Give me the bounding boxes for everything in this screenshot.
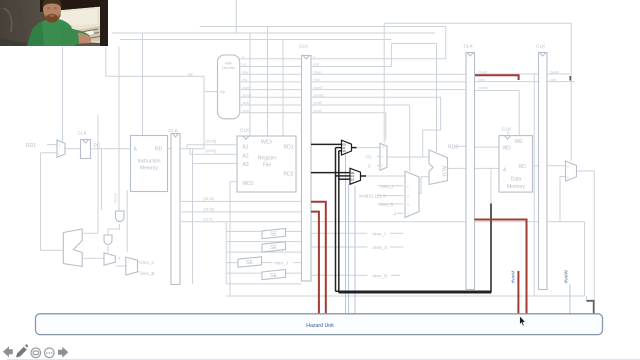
forwarding mux A (black)	[342, 140, 361, 184]
wire instr3112 in	[378, 195, 404, 197]
svg-text:[24:20]: [24:20]	[204, 208, 214, 212]
svg-text:RD: RD	[155, 147, 163, 153]
wire rfwe M line	[475, 73, 539, 75]
alu	[429, 150, 448, 185]
wire top drop	[235, 0, 237, 33]
svg-text:SE: SE	[270, 245, 277, 251]
mux immJ/immB	[126, 257, 138, 275]
wire red aluresM to hazard	[475, 220, 527, 315]
svg-text:A3: A3	[243, 162, 249, 168]
svg-text:RD2: RD2	[283, 172, 293, 178]
icon circle dots	[45, 348, 55, 358]
wire ctrl ms	[240, 81, 302, 83]
wire jal input to decoder	[62, 47, 64, 144]
wire resultw drop right	[584, 222, 586, 296]
wire ctrl srcA	[240, 112, 302, 114]
wire resultw return	[226, 295, 585, 297]
wire muxB out gray	[366, 175, 405, 177]
svg-text:CLK: CLK	[536, 44, 546, 50]
eyes shade	[47, 7, 50, 9]
notch reg3	[467, 53, 473, 57]
svg-text:1: 1	[567, 165, 569, 169]
wire ctrl mwe	[240, 89, 302, 91]
dark gray hazard feed corner	[570, 76, 593, 314]
wire instr vertical	[203, 76, 205, 148]
blinds	[73, 29, 100, 40]
bottom hairline	[7, 358, 640, 360]
wire pcmux sel drop	[383, 23, 385, 143]
wire pc+4 drop b	[101, 149, 103, 210]
wire pcmux in1	[377, 155, 380, 157]
main decoder U-ctrl	[218, 55, 240, 119]
svg-text:imm_J: imm_J	[381, 184, 394, 189]
svg-text:0: 0	[58, 154, 60, 158]
wire se row7	[226, 262, 301, 264]
adder branch target	[63, 229, 82, 267]
wire RD1 label to mux	[47, 144, 57, 146]
wire rail1 drop right	[570, 23, 572, 161]
hazard unit box	[36, 314, 603, 335]
wire gate link	[108, 224, 120, 235]
wire muxB out black	[361, 175, 367, 177]
svg-text:1: 1	[58, 144, 60, 148]
svg-text:Memory: Memory	[507, 184, 526, 190]
wire rs line long	[311, 221, 585, 223]
svg-text:Decoder: Decoder	[222, 66, 236, 70]
notch reg2	[303, 56, 309, 60]
wire dm rd out	[533, 165, 566, 167]
wire wmux in0 drop	[559, 177, 561, 222]
wire we3 drop	[249, 33, 251, 136]
wire wmux in0	[560, 176, 566, 178]
mux PC-jalr	[57, 140, 65, 158]
wire instr field line3	[181, 221, 302, 223]
wire red rs1E	[311, 202, 326, 314]
svg-text:Register: Register	[258, 156, 277, 162]
person hand	[78, 33, 92, 44]
wire rail3 drop	[142, 33, 144, 136]
svg-text:[31:7]: [31:7]	[204, 217, 213, 221]
svg-text:ms: ms	[243, 78, 248, 82]
icon circle face	[31, 348, 41, 358]
notch reg1	[173, 134, 179, 138]
wire imm labels in	[378, 185, 404, 187]
wire alu ctrl drop	[436, 44, 438, 153]
wire wd to reg3	[455, 145, 466, 147]
svg-text:srcB: srcB	[243, 101, 249, 105]
icon arrow right	[58, 347, 68, 358]
svg-text:[19:15]: [19:15]	[206, 140, 216, 144]
wire dm clk stub	[507, 132, 509, 136]
svg-text:imm_S: imm_S	[373, 245, 388, 251]
svg-text:instr[31:12], 0: instr[31:12], 0	[359, 194, 386, 199]
svg-text:WE3: WE3	[261, 140, 272, 146]
wire wmux out	[577, 170, 595, 172]
svg-text:rfweM: rfweM	[479, 70, 488, 74]
svg-text:srcA: srcA	[243, 109, 250, 113]
svg-text:CLK: CLK	[78, 131, 88, 137]
wire imm_B E b	[391, 274, 400, 276]
svg-text:4: 4	[407, 212, 409, 216]
wire instr tap to decoder Op	[204, 91, 218, 93]
wire rfweW into hazard	[569, 284, 571, 314]
wire big mux input1	[82, 232, 98, 234]
wire resultw right v	[593, 171, 595, 301]
svg-text:b: b	[314, 55, 316, 59]
wire pcplus4M drop	[533, 74, 535, 296]
wire mux2 in b	[138, 271, 140, 273]
mux pc-src	[380, 143, 387, 170]
svg-text:mwe: mwe	[243, 86, 250, 90]
svg-text:[19:15]: [19:15]	[204, 197, 214, 201]
wire stomp gate feed	[118, 47, 120, 212]
wire srcB drop	[390, 44, 392, 67]
svg-text:SE: SE	[270, 232, 277, 238]
wire fwdA sel	[345, 153, 347, 314]
wire ctrl b	[240, 58, 302, 60]
wire imm_S E	[311, 246, 368, 248]
wire a3 drop	[267, 27, 269, 137]
blind glare	[80, 31, 94, 37]
svg-text:rfweW: rfweW	[564, 269, 570, 283]
wire fwdA 10	[339, 150, 342, 152]
notch rf	[243, 136, 249, 140]
right dark strip	[100, 0, 108, 46]
svg-text:RD1: RD1	[283, 145, 293, 151]
svg-text:CLK: CLK	[169, 128, 179, 134]
wire wd3 in	[230, 181, 237, 183]
wire PC to IM	[91, 148, 131, 150]
and gate comp2	[104, 235, 112, 245]
svg-text:imm_B: imm_B	[140, 271, 154, 276]
svg-text:File: File	[263, 163, 271, 169]
wire rd2E black	[311, 172, 350, 174]
wire immS in	[378, 203, 404, 205]
wire mwe drop	[518, 91, 520, 136]
wire pc+4 drop a	[97, 115, 99, 233]
wire alu in a	[387, 156, 429, 158]
wire red rs2E	[311, 212, 319, 315]
svg-text:stompE: stompE	[314, 94, 325, 98]
wire big mux out	[41, 249, 64, 251]
wire rfwe W line	[547, 73, 570, 75]
wire se row5	[226, 241, 301, 243]
svg-text:CLK: CLK	[502, 127, 512, 133]
svg-text:jalr: jalr	[187, 72, 194, 76]
icon face inner	[33, 351, 39, 355]
wire rd1E black	[311, 143, 342, 145]
wire instrD out	[180, 148, 204, 150]
label pcmux digits	[58, 144, 569, 217]
wire wd M	[475, 146, 500, 148]
svg-text:Hazard Unit: Hazard Unit	[306, 323, 334, 329]
wire imm_B E	[311, 274, 368, 276]
wall texture streaks	[6, 0, 26, 46]
wire se row9	[226, 283, 301, 285]
wire a1 elbow	[186, 145, 188, 149]
notch dm	[505, 136, 511, 140]
webcam frame	[0, 0, 108, 46]
svg-text:WE: WE	[515, 139, 524, 145]
mux forwardB	[350, 168, 361, 184]
svg-text:RD2: RD2	[448, 144, 458, 150]
wire muxA out black	[352, 147, 357, 149]
person shirt	[27, 19, 75, 47]
wire imm_S E b	[390, 246, 404, 248]
icon arrow left	[3, 346, 13, 357]
wire se row8	[226, 272, 301, 274]
wire alu out	[448, 167, 467, 169]
svg-text:Op: Op	[220, 89, 226, 94]
wire srcB top	[391, 43, 436, 45]
label immJ mid gap	[273, 259, 294, 265]
wire a2 elbow	[189, 149, 191, 155]
wire red rfweM stub	[475, 75, 519, 80]
person arm	[62, 26, 90, 46]
wire rf a3	[193, 163, 238, 165]
wire instr field line1	[181, 200, 302, 202]
wire fwd vert b	[338, 151, 340, 293]
wire resultw riser	[229, 182, 231, 296]
svg-text:CLK: CLK	[240, 128, 250, 134]
person hair	[42, 0, 61, 9]
wire mux2 out	[115, 265, 125, 267]
svg-text:A1: A1	[243, 145, 249, 151]
svg-text:jalE: jalE	[313, 63, 319, 67]
wire pc W line	[547, 81, 575, 83]
wire pc M line	[475, 81, 539, 83]
wire alures fwd riser	[490, 204, 492, 293]
svg-text:ALU: ALU	[441, 166, 447, 177]
wire pc loop vertical	[40, 153, 42, 251]
wire fwdB 10	[339, 178, 350, 180]
svg-text:10: 10	[351, 178, 355, 182]
wire rf a1	[187, 144, 237, 146]
svg-text:jal: jal	[242, 63, 246, 67]
sign extend SE2	[262, 242, 286, 252]
icon pencil tip	[25, 344, 28, 347]
wire IM RD to reg1	[168, 148, 172, 150]
svg-text:rfweW: rfweW	[550, 70, 559, 74]
wire imm_I E b	[390, 232, 404, 234]
cursor	[520, 316, 525, 326]
beard chin	[46, 14, 58, 23]
person beard	[44, 10, 61, 22]
window sill shade	[72, 26, 101, 43]
svg-text:0: 0	[567, 176, 569, 180]
wire pc loop into mux0	[41, 152, 58, 154]
svg-text:imm_S: imm_S	[380, 202, 394, 207]
wire top rail 2	[200, 26, 446, 28]
svg-text:PC: PC	[94, 144, 101, 150]
svg-text:Main: Main	[225, 62, 232, 66]
wire pcmux in2	[377, 165, 380, 167]
notch reg4	[540, 53, 546, 57]
svg-text:Data: Data	[511, 177, 522, 183]
wire pcplus4D drop	[192, 149, 194, 284]
svg-text:WD: WD	[503, 146, 512, 152]
wire fwd bottom	[336, 290, 492, 292]
svg-text:WD3: WD3	[243, 181, 254, 187]
and gate comp1	[116, 211, 125, 222]
svg-text:pcW: pcW	[550, 78, 556, 82]
wire fwdB sel	[348, 184, 350, 314]
svg-text:CLK: CLK	[299, 44, 309, 50]
svg-text:Memory: Memory	[140, 166, 159, 172]
svg-text:mweE: mweE	[314, 86, 323, 90]
svg-text:imm_B: imm_B	[373, 273, 388, 279]
wire gate feed	[126, 190, 128, 252]
window glare	[60, 9, 97, 27]
person neck	[47, 13, 59, 21]
wire fwd vert a	[335, 148, 337, 292]
clk notches	[83, 53, 546, 144]
mux imm-select	[405, 171, 419, 217]
svg-text:[24:20]: [24:20]	[206, 149, 216, 153]
svg-text:A2: A2	[243, 154, 249, 160]
svg-text:SE: SE	[246, 260, 253, 266]
wire immmux sel drop	[409, 105, 411, 171]
register file	[237, 136, 296, 192]
svg-text:pcM: pcM	[479, 78, 485, 82]
wire stall sel	[354, 186, 356, 314]
pipeline register MEM/WB	[539, 53, 548, 290]
wire wd drop	[282, 40, 284, 137]
svg-text:RD1: RD1	[26, 143, 36, 149]
wire field bus vertical	[225, 222, 227, 284]
wire alu in b elbow	[419, 177, 429, 194]
wire se row6	[226, 251, 301, 253]
svg-text:2: 2	[407, 195, 409, 199]
window dark top band	[40, 0, 108, 12]
sign extend SE3	[238, 257, 262, 268]
wire fwdB 01	[336, 175, 351, 177]
wire imm_I E	[311, 232, 368, 234]
wire ctrl rfwe	[240, 73, 302, 75]
svg-text:srcAE: srcAE	[314, 109, 323, 113]
junction mark	[569, 76, 571, 81]
svg-text:b: b	[243, 55, 245, 59]
svg-text:0: 0	[383, 146, 385, 150]
svg-text:rfwe: rfwe	[243, 70, 249, 74]
svg-text:imm_I: imm_I	[373, 231, 386, 237]
wire aluresult M	[475, 167, 500, 169]
sign extend SE4	[262, 270, 286, 280]
svg-text:PC: PC	[366, 154, 372, 159]
wire ctrl stomp	[240, 96, 302, 98]
svg-text:SE: SE	[270, 273, 277, 279]
wire fwdA 01	[336, 147, 342, 149]
wire instr field line2	[181, 211, 302, 213]
shirt shade	[27, 22, 44, 47]
pipeline register EX/MEM	[466, 53, 475, 290]
svg-text:2: 2	[382, 164, 384, 168]
person head	[43, 0, 61, 21]
mouth	[50, 15, 55, 17]
wire ctrl srcB	[240, 104, 302, 106]
svg-text:1: 1	[382, 155, 384, 159]
svg-text:3: 3	[407, 203, 409, 207]
mux result-w	[566, 161, 577, 181]
register PC	[81, 140, 91, 159]
svg-text:imm_J: imm_J	[140, 260, 153, 265]
svg-text:10: 10	[342, 149, 346, 153]
wire hz right stub	[586, 296, 588, 301]
svg-text:stomp: stomp	[113, 193, 117, 203]
wire dark corner	[587, 301, 594, 314]
wire red rfweM short	[517, 271, 519, 314]
icon dots	[46, 352, 48, 354]
wire rf a2	[190, 153, 237, 155]
svg-text:srcBE: srcBE	[314, 101, 323, 105]
svg-text:rfweE: rfweE	[314, 70, 322, 74]
svg-text:msE: msE	[314, 78, 320, 82]
wire ctrl jal	[240, 66, 302, 68]
data memory	[499, 136, 533, 193]
instruction memory	[131, 136, 168, 192]
window bright	[56, 7, 101, 44]
wire op corner up	[105, 47, 107, 77]
svg-text:rfweM: rfweM	[511, 270, 517, 283]
wire fwd bottom2	[339, 292, 491, 294]
wire mux2 in a	[138, 261, 140, 263]
wire aluop drop	[445, 27, 447, 59]
beard lower	[45, 14, 59, 22]
svg-text:1: 1	[407, 185, 409, 189]
mux pc+4/target	[104, 253, 115, 265]
wire const4 in	[397, 212, 404, 214]
svg-text:mweM: mweM	[479, 86, 489, 90]
ctrl labels left of reg2	[113, 55, 559, 203]
sign extend SE1	[262, 229, 286, 239]
notch PC	[83, 140, 89, 144]
svg-text:Instruction: Instruction	[137, 159, 160, 165]
pipeline register ID/EX	[302, 56, 312, 282]
wire top rail 4	[120, 39, 391, 41]
wire top rail 1	[384, 22, 571, 24]
wire mwe M line	[475, 90, 520, 92]
svg-text:CLK: CLK	[464, 44, 474, 50]
wire big mux input2	[82, 257, 104, 259]
wire se row4	[226, 230, 301, 232]
mux forwardA	[342, 140, 352, 155]
wire alures tap	[490, 168, 492, 203]
pipeline register IF/ID	[171, 134, 180, 285]
icon pencil	[16, 347, 27, 358]
svg-text:imm_J: imm_J	[275, 260, 288, 265]
wire mux to PC	[65, 148, 81, 150]
wire gate2 out	[107, 246, 109, 253]
wire top rail 3	[112, 32, 435, 34]
wire muxA out	[357, 147, 381, 149]
wire op input horizontal	[106, 75, 204, 77]
svg-text:RD: RD	[519, 164, 527, 170]
svg-text:stomp: stomp	[243, 94, 252, 98]
wire srcA drop	[385, 113, 387, 140]
